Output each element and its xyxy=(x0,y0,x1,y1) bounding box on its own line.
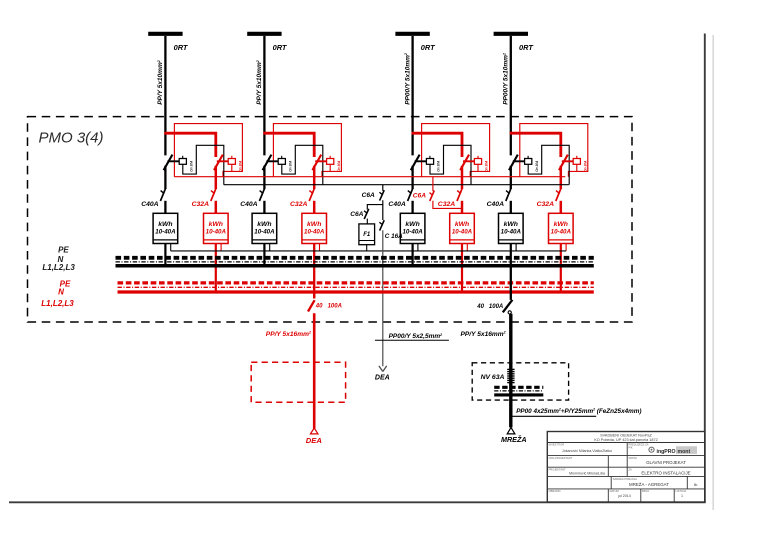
svg-text:L1,L2,L3: L1,L2,L3 xyxy=(41,299,74,308)
wire: aux vertical to C16A xyxy=(382,205,384,220)
svg-text:kWh: kWh xyxy=(504,221,518,228)
svg-text:PP/Y 5x16mm2: PP/Y 5x16mm2 xyxy=(266,331,311,338)
cable label PP00/Y 5x10mm2 cell 4 xyxy=(502,53,509,105)
svg-text:10-40A: 10-40A xyxy=(206,229,227,236)
wire: to meter black cell 1 xyxy=(164,201,166,214)
wire: aux output (grey) down through busbars xyxy=(382,230,384,366)
disconnect switch 40 100A (red) xyxy=(308,300,315,311)
svg-text:KO Pobeda, UP 423 kat.parcela: KO Pobeda, UP 423 kat.parcela 1872 xyxy=(594,438,657,442)
wire: red coil stub cell 4 xyxy=(576,164,578,171)
wire: meter aux stub black cell 2 xyxy=(269,244,271,251)
mini busbar N in fuse box (dash-dot) xyxy=(494,390,543,392)
mini busbar PE in fuse box (dashed) xyxy=(494,386,543,389)
wire: feeder drop cell 4 xyxy=(510,36,512,155)
wire: meter aux stub black cell 3 xyxy=(417,244,419,251)
svg-text:DEA: DEA xyxy=(375,375,390,382)
svg-text:BROJ: BROJ xyxy=(642,489,650,493)
kWh meter (black) cell 3 xyxy=(400,213,425,243)
cable label PP00/Y 5x10mm2 cell 3 xyxy=(404,53,411,105)
svg-text:PP00/Y 5x10mm2: PP00/Y 5x10mm2 xyxy=(502,53,509,105)
wire: feeder drop cell 3 xyxy=(411,36,413,155)
svg-text:DEA: DEA xyxy=(306,436,322,445)
svg-text:On 30A: On 30A xyxy=(535,160,539,172)
sheet bottom border xyxy=(9,501,706,503)
svg-text:ELEKTRO INSTALACIJE: ELEKTRO INSTALACIJE xyxy=(641,470,690,475)
wire: DEA red output upper xyxy=(313,291,315,298)
title block row: glavni projekat xyxy=(549,456,687,465)
circuit breaker C32A cell 1 xyxy=(211,189,216,201)
svg-text:SADRZAJ PRILOGA: SADRZAJ PRILOGA xyxy=(613,477,637,481)
svg-text:10-40A: 10-40A xyxy=(501,229,522,236)
svg-text:ODG.PROJEKTANT: ODG.PROJEKTANT xyxy=(549,456,573,460)
circuit breaker C 16A xyxy=(379,220,384,230)
cable label PP/Y 5x10mm2 cell 2 xyxy=(256,60,263,105)
circuit breaker C40A cell 1 xyxy=(160,189,165,201)
svg-text:PE: PE xyxy=(58,245,69,254)
circuit breaker C32A cell 4 xyxy=(556,189,561,201)
circuit breaker C6A (aux 1) xyxy=(379,190,384,200)
wire: black branch mid cell 1 xyxy=(164,166,166,189)
feeder bar (terminal 0RT) cell 1 xyxy=(148,32,182,36)
contactor coil label (On 30A) black cell 3 xyxy=(437,160,441,172)
svg-text:kWh: kWh xyxy=(455,221,469,228)
contactor coil label (On 30A) red cell 3 xyxy=(485,160,489,172)
wire: meter aux stub red cell 1 xyxy=(220,244,222,251)
wire: meter drop to black busbars cell 2 xyxy=(263,244,265,268)
wire: red branch mid cell 4 xyxy=(560,166,563,189)
wire: MREZA output lower (thick) xyxy=(509,314,512,428)
svg-text:PP/Y 5x16mm2: PP/Y 5x16mm2 xyxy=(461,331,506,338)
svg-text:MREŽA - AGREGAT: MREŽA - AGREGAT xyxy=(629,482,669,487)
busbar N (red, dash-dot) xyxy=(118,286,594,288)
busbar PE (black, dashed) xyxy=(116,256,594,260)
kWh meter (black) cell 2 xyxy=(252,213,277,243)
wire: meter drop to red busbars cell 2 (continues to DEA) xyxy=(313,244,315,299)
title block row: investitor xyxy=(549,442,649,453)
circuit breaker C40A cell 2 xyxy=(259,189,264,201)
svg-text:kWh: kWh xyxy=(554,221,568,228)
svg-text:0RT: 0RT xyxy=(519,43,534,52)
svg-text:10-40A: 10-40A xyxy=(452,229,473,236)
wire: black control bus (thin, across cells) xyxy=(224,184,569,186)
svg-text:jul 2014: jul 2014 xyxy=(617,494,631,498)
wire: to meter red cell 3 xyxy=(461,201,464,214)
svg-text:C32A: C32A xyxy=(438,201,455,208)
svg-text:C6A: C6A xyxy=(413,192,426,199)
contactor K2 (black branch) xyxy=(263,155,286,171)
svg-text:C32A: C32A xyxy=(537,201,554,208)
svg-text:PMO 3(4): PMO 3(4) xyxy=(39,129,104,146)
wire: red branch mid cell 1 xyxy=(215,166,218,189)
wire: meter aux connection line xyxy=(171,250,566,252)
contactor coil label (On 30A) red cell 1 xyxy=(238,160,242,172)
circuit breaker C40A cell 4 xyxy=(506,189,511,201)
svg-text:C32A: C32A xyxy=(290,201,307,208)
future cabinet (red dashed box) xyxy=(251,362,345,402)
svg-text:C 16A: C 16A xyxy=(385,233,403,240)
svg-text:On 30A: On 30A xyxy=(238,160,242,172)
fuse NV 63A (hatched block) xyxy=(507,369,514,382)
red aux breaker feed from red control bus xyxy=(432,177,434,192)
fuse cabinet (black dashed box) xyxy=(472,363,568,400)
arrow terminal DEA (grey, open V) xyxy=(379,366,387,372)
wire: meter aux stub red cell 3 xyxy=(466,244,468,251)
cable label underline xyxy=(375,339,449,341)
wire: red branch mid cell 3 xyxy=(461,166,464,189)
svg-text:ZA: ZA xyxy=(628,467,632,471)
svg-text:C40A: C40A xyxy=(487,201,504,208)
svg-text:On 30A: On 30A xyxy=(485,160,489,172)
wire: meter drop to red busbars cell 1 xyxy=(215,244,217,294)
mini busbar L in fuse box (solid) xyxy=(494,393,543,396)
wire: meter drop to black busbars cell 1 xyxy=(164,244,166,268)
svg-text:C40A: C40A xyxy=(388,201,405,208)
svg-text:NV 63A: NV 63A xyxy=(481,374,505,381)
title block frame xyxy=(547,432,704,503)
svg-text:DATUM: DATUM xyxy=(610,489,619,493)
wire: black control wire cell 2 xyxy=(282,145,323,184)
svg-text:C32A: C32A xyxy=(192,201,209,208)
kWh meter (black) cell 1 xyxy=(153,213,178,243)
feeder bar (terminal 0RT) cell 2 xyxy=(247,32,281,36)
contactor coil label (On 30A) black cell 4 xyxy=(535,160,539,172)
cable label underline (MREZA cable) xyxy=(511,415,596,417)
title block row: date/sheet xyxy=(549,489,687,498)
svg-text:0RT: 0RT xyxy=(174,43,189,52)
circuit breaker C6A (red aux) xyxy=(430,191,435,201)
wire: red coil stub cell 2 xyxy=(329,164,331,171)
wire: black control wire cell 3 xyxy=(430,145,471,184)
contactor K3R (red branch) xyxy=(460,155,481,171)
wire: to meter black cell 2 xyxy=(263,201,265,214)
arrow terminal MREZA xyxy=(507,427,515,434)
svg-text:On 30A: On 30A xyxy=(583,160,587,172)
busbar L1,L2,L3 (red, solid) xyxy=(118,290,594,293)
wire: to meter black cell 3 xyxy=(411,201,413,214)
svg-text:SVADBENI OBJEKAT NovPaZ: SVADBENI OBJEKAT NovPaZ xyxy=(600,434,652,438)
kWh meter (red) cell 1 xyxy=(204,213,229,243)
wire: red control loop cell 1 xyxy=(174,124,242,177)
svg-text:10-40A: 10-40A xyxy=(304,229,325,236)
wire: black control wire cell 1 xyxy=(183,145,224,184)
wire: meter aux stub red cell 4 xyxy=(565,244,567,251)
wire: black control wire cell 4 xyxy=(528,145,569,184)
wire: red feed (thick) cell 3 xyxy=(412,133,463,157)
sheet right border shadow xyxy=(712,35,714,510)
switch hinge circle xyxy=(508,311,511,314)
svg-text:LISTOVA: LISTOVA xyxy=(676,489,687,493)
wire: aux feeder from control bus xyxy=(382,185,384,191)
svg-text:ingPRO: ingPRO xyxy=(657,449,676,455)
contactor K4R (red branch) xyxy=(559,155,580,171)
svg-text:On 30A: On 30A xyxy=(337,160,341,172)
wire: meter drop to black busbars cell 3 xyxy=(412,244,414,268)
svg-text:40: 40 xyxy=(315,304,323,310)
svg-text:F1: F1 xyxy=(363,232,371,238)
svg-text:kWh: kWh xyxy=(158,221,172,228)
wire: red control bus (thin, across cells) xyxy=(174,176,565,178)
wire: red control loop cell 4 xyxy=(520,124,588,177)
svg-text:10-40A: 10-40A xyxy=(254,229,275,236)
svg-text:C40A: C40A xyxy=(141,201,158,208)
distribution cabinet enclosure PMO 3(4) (dashed boundary) xyxy=(28,117,633,322)
svg-text:INVESTITOR: INVESTITOR xyxy=(549,443,565,447)
contactor K2R (red branch) xyxy=(312,155,333,171)
svg-text:PP00 4x25mm2+P/Y25mm2 (FeZn25x: PP00 4x25mm2+P/Y25mm2 (FeZn25x4mm) xyxy=(516,408,641,415)
svg-text:C6A: C6A xyxy=(350,211,363,218)
svg-text:MREŽA: MREŽA xyxy=(501,435,527,444)
wire: aux branch corner xyxy=(367,200,383,209)
wire: red aux joins cell 3 red branch xyxy=(433,201,462,209)
wire: red feed (thick) cell 1 xyxy=(164,133,216,157)
svg-text:mont: mont xyxy=(678,449,691,455)
wire: to meter red cell 4 xyxy=(560,201,563,214)
svg-text:PP00/Y 5x2,5mm2: PP00/Y 5x2,5mm2 xyxy=(389,333,443,340)
wire: meter drop to red busbars cell 4 xyxy=(560,244,562,294)
contactor coil label (On 30A) red cell 4 xyxy=(583,160,587,172)
svg-text:kWh: kWh xyxy=(405,221,419,228)
wire: red branch mid cell 2 xyxy=(313,166,316,189)
label 40 100A (black) xyxy=(476,304,503,310)
svg-text:PP00/Y 5x10mm2: PP00/Y 5x10mm2 xyxy=(404,53,411,105)
arrow terminal DEA (red) xyxy=(310,428,318,434)
wire: black branch mid cell 3 xyxy=(411,166,413,189)
wire: black branch mid cell 2 xyxy=(263,166,265,189)
svg-text:Jokanović Milanka,VlatkoZlatko: Jokanović Milanka,VlatkoZlatko xyxy=(562,449,612,453)
wire: red control loop cell 3 xyxy=(422,124,490,177)
busbar L1,L2,L3 (black, solid) xyxy=(116,264,594,268)
svg-text:10-40A: 10-40A xyxy=(155,229,176,236)
kWh meter (red) cell 2 xyxy=(302,213,327,243)
svg-text:10-40A: 10-40A xyxy=(402,229,423,236)
svg-text:On 30A: On 30A xyxy=(437,160,441,172)
wire: meter drop to black busbars cell 4 xyxy=(510,244,512,268)
wire: to meter red cell 1 xyxy=(215,201,218,214)
svg-text:Miomirović Milorad,dia: Miomirović Milorad,dia xyxy=(569,471,605,475)
wire: DEA red output lower xyxy=(313,313,316,428)
kWh meter (black) cell 4 xyxy=(499,213,524,243)
contactor K3 (black branch) xyxy=(411,155,434,171)
svg-text:L1,L2,L3: L1,L2,L3 xyxy=(42,263,75,272)
svg-text:C6A: C6A xyxy=(362,192,375,199)
svg-text:100A: 100A xyxy=(328,304,342,310)
svg-text:PIK: PIK xyxy=(628,445,632,449)
svg-text:kWh: kWh xyxy=(307,221,321,228)
svg-text:PROJEKTANT: PROJEKTANT xyxy=(549,467,566,471)
wire: to meter black cell 4 xyxy=(510,201,512,214)
svg-text:VRSTA: VRSTA xyxy=(628,456,637,460)
svg-text:100A: 100A xyxy=(489,304,503,310)
wire: red feed (thick) cell 4 xyxy=(510,133,561,157)
contactor K1 (black branch) xyxy=(164,155,187,171)
wire: meter aux stub black cell 4 xyxy=(515,244,517,251)
svg-text:kWh: kWh xyxy=(209,221,223,228)
wire: meter aux stub red cell 2 xyxy=(319,244,321,251)
svg-text:lib.: lib. xyxy=(694,483,698,487)
contactor coil label (On 30A) red cell 2 xyxy=(337,160,341,172)
svg-text:10-40A: 10-40A xyxy=(551,229,572,236)
contactor K4 (black branch) xyxy=(509,155,532,171)
circuit breaker C32A cell 3 xyxy=(457,189,462,201)
svg-text:0RT: 0RT xyxy=(273,43,288,52)
disconnect switch 40 100A (black) xyxy=(503,300,513,313)
title block row: elektro instalacije xyxy=(549,467,691,475)
svg-text:On 30A: On 30A xyxy=(189,160,193,172)
wire: feeder drop cell 1 xyxy=(164,36,166,155)
wire: MREZA output upper xyxy=(510,267,512,300)
title block header text xyxy=(594,434,657,442)
svg-text:GLAVNI PROJEKAT: GLAVNI PROJEKAT xyxy=(646,460,686,465)
contactor K1R (red branch) xyxy=(214,155,235,171)
title block row: mreza-agregat xyxy=(613,477,698,487)
wire: black branch mid cell 4 xyxy=(510,166,512,189)
busbar N (black, dash-dot) xyxy=(116,261,594,263)
wire: to meter red cell 2 xyxy=(313,201,316,214)
contactor coil label (On 30A) black cell 1 xyxy=(189,160,193,172)
svg-text:0RT: 0RT xyxy=(421,43,436,52)
svg-text:1: 1 xyxy=(681,494,683,498)
wire: red coil stub cell 3 xyxy=(477,164,479,171)
circuit breaker C6A (aux 2) xyxy=(364,209,369,219)
contactor coil label (On 30A) black cell 2 xyxy=(288,160,292,172)
wire: meter drop to red busbars cell 3 xyxy=(461,244,463,294)
circuit breaker C32A cell 2 xyxy=(309,189,314,201)
circuit breaker C40A cell 3 xyxy=(408,189,413,201)
svg-text:40: 40 xyxy=(476,304,484,310)
sheet right border xyxy=(704,34,706,503)
wire: meter aux stub black cell 1 xyxy=(170,244,172,251)
wire: red feed (thick) cell 2 xyxy=(263,133,314,157)
wire: relay F1 stub xyxy=(366,245,368,251)
svg-text:On 30A: On 30A xyxy=(288,160,292,172)
svg-text:C40A: C40A xyxy=(240,201,257,208)
cable label PP/Y 5x10mm2 cell 1 xyxy=(157,60,164,105)
svg-text:OBRADIO: OBRADIO xyxy=(549,489,561,493)
svg-text:PP/Y 5x10mm2: PP/Y 5x10mm2 xyxy=(256,60,263,105)
wire: feeder drop cell 2 xyxy=(263,36,265,155)
wire: red coil stub cell 1 xyxy=(231,164,233,171)
wire: red control loop cell 2 xyxy=(273,124,341,177)
feeder bar (terminal 0RT) cell 4 xyxy=(494,32,528,36)
wire: into relay F1 xyxy=(366,219,368,224)
svg-text:PP/Y 5x10mm2: PP/Y 5x10mm2 xyxy=(157,60,164,105)
busbar PE (red, dashed) xyxy=(118,281,594,284)
label 40 100A (red) xyxy=(315,304,342,310)
time relay F1 xyxy=(359,224,375,245)
feeder bar (terminal 0RT) cell 3 xyxy=(395,32,429,36)
kWh meter (red) cell 3 xyxy=(450,213,475,243)
title block grid xyxy=(547,443,704,502)
svg-text:kWh: kWh xyxy=(257,221,271,228)
kWh meter (red) cell 4 xyxy=(549,213,574,243)
logo ingPROmont xyxy=(649,446,697,455)
svg-text:N: N xyxy=(58,288,64,297)
